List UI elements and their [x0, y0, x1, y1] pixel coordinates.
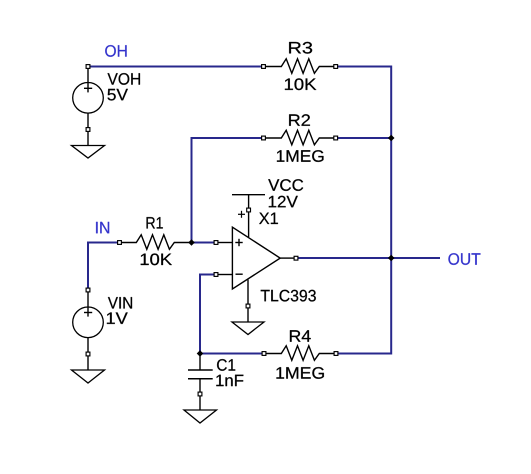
ground (below X1) — [232, 322, 264, 335]
voltage source VIN — [73, 288, 132, 356]
net label OUT — [448, 253, 480, 265]
ground (below VOH) — [72, 132, 105, 158]
VCC supply pin of X1 — [232, 179, 303, 237]
junction at OUT / bus — [388, 255, 395, 262]
wire OH net: VOH top to R3 left — [88, 66, 263, 68]
voltage source VOH — [73, 65, 140, 132]
op-amp U1 (comparator X1 TLC393) — [214, 213, 316, 302]
wire OUT net: op-amp output to the right — [297, 257, 440, 259]
ground (below VIN) — [72, 356, 105, 383]
wire C1 junction to R4 left — [200, 353, 263, 355]
wire IN net: VIN top up and right to R1 — [88, 243, 119, 291]
wire R1 junction to op-amp + input — [192, 242, 217, 244]
wire R2 right to bus — [337, 137, 391, 139]
resistor R3 — [262, 42, 338, 90]
junction at C1 / minus input / R4 — [197, 350, 204, 357]
resistor R2 — [262, 114, 338, 162]
net label IN — [96, 222, 109, 233]
wire R3 right to vertical bus down to R4 right — [337, 67, 391, 354]
ground pin of X1 — [246, 280, 250, 322]
capacitor C1 — [188, 354, 243, 411]
resistor R4 — [262, 330, 338, 379]
junction at R2 right / bus — [388, 135, 395, 142]
resistor R1 — [118, 217, 190, 265]
wire op-amp - input left and down to C1 junction — [200, 275, 216, 354]
ground (below C1) — [184, 410, 217, 423]
junction at R1 / R2 / op-amp + input — [188, 239, 195, 246]
wire R2 left to vertical down to R1 junction — [192, 138, 264, 242]
net label OH — [105, 45, 126, 57]
